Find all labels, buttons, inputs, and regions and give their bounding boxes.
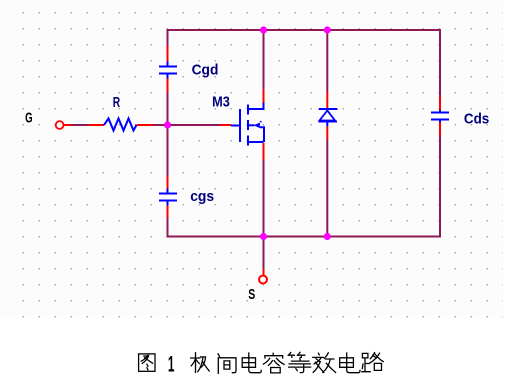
pin: cgs bottom pin [167,206,169,219]
junction node S-M3 bottom [260,233,267,240]
pin: diode bottom pin [326,126,328,140]
schematic sheet background [0,0,503,318]
pin: Cds top pin [439,97,441,111]
junction node S-diode bottom [324,233,331,240]
pin: Cgd bottom pin [167,79,169,93]
M3 bulk to source [260,127,264,142]
pin: G terminal pin [64,124,72,126]
wire: resistor to gate [153,124,220,126]
capacitor Cgd bottom stub [167,74,169,79]
svg-text:Cgd: Cgd [192,62,219,79]
terminal S port circle [259,269,267,284]
wire: diode branch upper [326,31,328,92]
junction node D-M3 top [260,26,267,33]
M3 bulk lead [248,124,255,126]
wire: right vertical (Cds branch upper) [439,29,441,97]
capacitor Cds top stub [439,110,441,113]
wire: bottom horizontal net S [168,236,441,238]
capacitor Cds bottom stub [439,120,441,123]
caption char 容 [263,353,284,373]
junction node D-diode top [324,26,331,33]
pin: resistor right pin [137,124,154,126]
caption char 电 (1st) [242,353,261,373]
M3 gate lead [231,125,239,127]
capacitor cgs plates [159,193,177,195]
svg-text:1: 1 [168,352,175,377]
wire: MOSFET source vertical [263,160,265,237]
caption char 电 (2nd) [340,353,360,373]
pin: resistor left pin [89,124,104,126]
svg-text:cgs: cgs [190,188,214,205]
capacitor Cgd plates [159,66,177,68]
wire: diode branch lower [326,140,328,237]
capacitor cgs top stub [167,189,169,194]
diode anode bar [319,121,338,123]
svg-text:Cds: Cds [464,110,489,127]
diode triangle [320,111,336,121]
caption char 等 [288,352,310,372]
diode D1 (body diode) [319,92,338,140]
caption char 图 [139,354,155,371]
transistor M3 (NMOS) [220,89,264,160]
resistor R body [104,119,137,131]
caption char 极 [191,353,210,373]
pin: diode top pin [326,92,328,109]
M3 bulk arrow [254,123,260,129]
capacitor Cgd [159,46,177,93]
capacitor cgs bottom stub [167,201,169,206]
wire: left vertical top (to Cgd) [167,29,169,46]
wire: left vertical Cgd to gate node [167,92,169,176]
capacitor Cgd top stub [167,62,169,67]
diode cathode bar [319,108,338,110]
pin: Cds bottom pin [439,123,441,136]
wire: source to S terminal [263,237,265,270]
M3 channel segment bottom [247,136,249,146]
M3 channel segment top [247,105,249,115]
junction node gate [164,121,171,128]
wire: right vertical (Cds branch lower) [439,136,441,238]
pin: gate pin [220,124,231,126]
capacitor Cds plates [431,112,449,114]
M3 channel segment middle [247,120,249,130]
wire: MOSFET drain vertical [263,31,265,89]
wire: top horizontal net D [168,29,441,31]
caption char 路 [362,353,383,372]
svg-text:R: R [113,94,121,111]
svg-text:G: G [25,110,32,127]
capacitor Cds [431,97,449,136]
pin: Cgd top pin [167,46,169,62]
caption char 间 [218,354,236,373]
diode anode stub [326,122,328,127]
caption: 图 1 极间电容等效电路 [139,352,384,377]
pin: cgs top pin [167,176,169,189]
pin: source pin [263,143,265,160]
svg-text:M3: M3 [212,94,230,111]
M3 gate bar [239,109,241,142]
pin: S terminal pin [263,269,265,275]
pin: drain pin [263,89,265,103]
M3 source lead [248,141,264,143]
terminal G port circle [56,121,64,129]
M3 drain lead [248,103,264,110]
capacitor cgs [159,176,177,218]
wire: left vertical cgs to bottom [167,218,169,238]
caption char 效 [313,353,336,373]
wire: G terminal to resistor [71,124,89,126]
svg-text:S: S [248,286,255,303]
